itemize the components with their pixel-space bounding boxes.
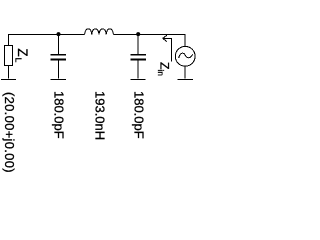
svg-text:180.0pF: 180.0pF [132,91,147,139]
svg-text:180.0pF: 180.0pF [52,91,67,139]
svg-text:(20.00+j0.00): (20.00+j0.00) [2,92,17,173]
svg-text:193.0nH: 193.0nH [93,91,108,140]
svg-text:ZL: ZL [13,48,30,62]
svg-text:Zin: Zin [156,62,172,76]
